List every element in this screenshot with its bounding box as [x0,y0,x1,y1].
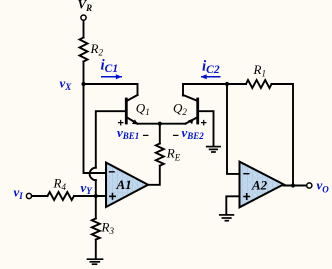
label plus Q2 BE [201,118,207,130]
label vBE1 [117,125,139,141]
ground R3 [88,259,103,264]
wire junction to R1 [227,83,246,85]
wire node vX down to A1 inverting input [84,84,107,173]
resistor R4 [48,192,75,200]
current arrow iC1 [101,74,122,79]
label minus Q2 BE [173,130,179,142]
label vO [317,178,330,195]
node vY junction dot [94,194,98,198]
label plus A1 noninverting input [110,194,115,199]
label RE [166,146,181,163]
wire R2 to node vX [83,62,85,85]
wire node vY to R3 [95,196,97,219]
label VR [78,0,93,13]
wire R4 to node vY and A1 noninverting input [74,195,106,197]
wire junction down to A2 inverting input [227,84,240,174]
label Q1 [136,101,150,118]
wire A2 noninverting input to ground [226,196,239,214]
label minus Q1 BE [143,130,149,142]
wire VR terminal to R2 [83,20,85,37]
label minus A1 inverting input [110,171,115,173]
label A2 [251,178,268,193]
label vX [60,76,73,93]
wire Q2 collector up and right to junction [183,84,227,101]
wire RE to A1 output [148,166,160,185]
op-amp A1 [106,163,148,208]
wire A2 output to terminal [284,185,307,187]
resistor R3 [92,219,100,240]
label plus A2 noninverting input [244,194,249,199]
label plus Q1 BE [118,118,124,130]
label Q2 [173,101,187,118]
label vY [81,180,94,196]
wire vI to R4 [32,195,48,197]
resistor RE [156,144,164,166]
terminal vO [307,183,312,188]
transistor Q1 [126,99,138,124]
junction dot iC2 node [225,82,229,86]
transistor Q2 [186,99,198,124]
wire hop to node vY [95,180,97,196]
label iC1 [101,58,119,76]
ground A2 input [220,215,234,221]
wire hop over vX-A1 wire [90,168,96,180]
label vI [14,185,24,202]
label A1 [116,177,132,192]
emitter junction dot [158,122,162,126]
wire Q2 base to ground [199,111,214,146]
wire node vX to Q1 collector [84,84,138,101]
wire Q1 emitter to Q2 emitter [138,123,186,125]
svg-text:A2: A2 [251,178,268,193]
wire Q1 base to vertical rail [96,111,125,168]
label iC2 [202,59,220,77]
op-amp A2 [240,162,284,208]
current arrow iC2 [201,74,221,79]
svg-text:A1: A1 [116,177,132,192]
wire R1 to output node [272,84,294,186]
resistor R1 [246,80,272,88]
ground Q2 base [207,147,220,152]
label minus A2 inverting input [244,173,249,175]
svg-text:−: − [143,130,149,142]
label R4 [53,176,67,193]
svg-text:+: + [201,118,207,130]
output junction dot [291,183,295,187]
svg-text:−: − [173,130,179,142]
label R3 [101,220,115,237]
wire R3 to ground [95,240,97,259]
terminal VR [81,15,86,20]
label vBE2 [182,125,205,141]
label R1 [253,62,266,79]
terminal vI [26,193,31,198]
resistor R2 [80,38,88,62]
wire emitter junction to RE [159,124,161,144]
node vX junction dot [81,82,85,86]
label R2 [90,41,104,58]
